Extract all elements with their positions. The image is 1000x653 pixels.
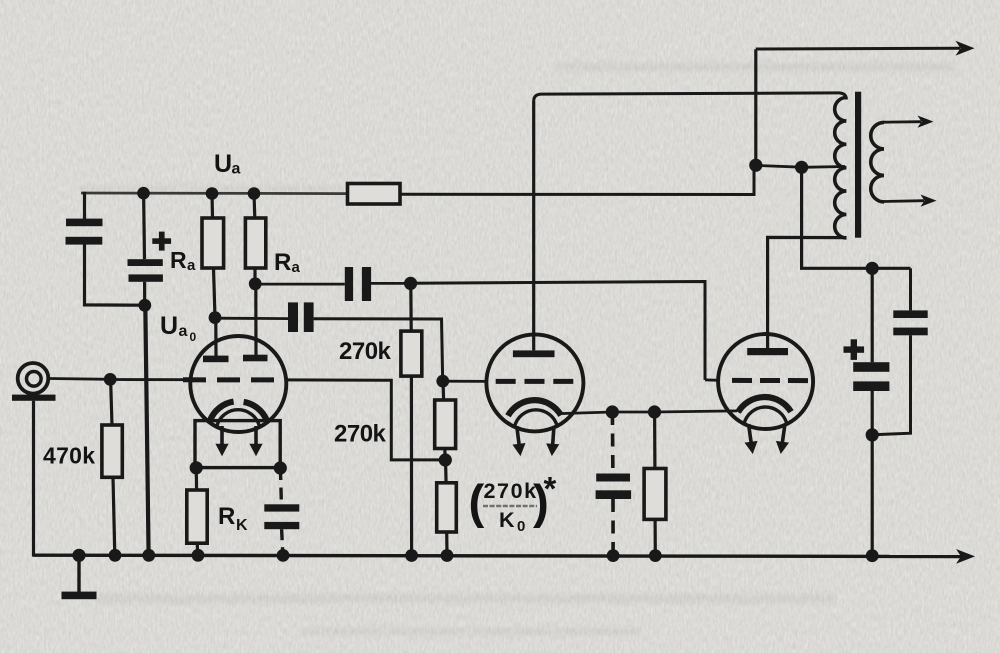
svg-text:470k: 470k xyxy=(43,443,95,469)
tube V3 cathode arrow left xyxy=(742,423,759,455)
tube V1 envelope xyxy=(190,336,286,432)
wire C3 to grid corner of tube V2 xyxy=(314,319,443,381)
svg-text:R: R xyxy=(170,247,187,273)
wire input to node H xyxy=(49,377,111,381)
wire top long run to transformer primary xyxy=(534,93,847,101)
label Ua0 node xyxy=(160,312,197,344)
svg-text:0: 0 xyxy=(190,330,197,344)
ground symbol xyxy=(77,555,80,592)
wire secondary bottom lead output arrow xyxy=(883,195,937,207)
grid g1 dashed line inside tube V1 xyxy=(183,377,288,382)
tube V2 cathode arrow right xyxy=(545,426,560,457)
capacitor C2 electrolytic plates xyxy=(128,259,163,282)
wire node R down to ground rail xyxy=(871,435,874,556)
resistor R3 (270k/K0) top lead xyxy=(444,460,448,483)
node I box corner left xyxy=(190,461,203,474)
resistor R3 (270k/K0) xyxy=(437,483,457,532)
resistor Ra2 xyxy=(245,218,265,268)
node junction on rail at Ra1 xyxy=(206,187,219,200)
wire V2 anode lead up to top wire xyxy=(532,101,535,350)
tube V1 anode plate a1 xyxy=(203,356,229,363)
svg-text:0: 0 xyxy=(517,518,525,535)
svg-text:270k: 270k xyxy=(339,338,392,365)
wire node P to transformer center tap xyxy=(802,165,845,169)
grid g dashed line inside tube V3 xyxy=(732,378,813,383)
wire from rail down to capacitor C1 xyxy=(83,192,86,219)
node ground stub junction xyxy=(72,549,85,562)
resistor Ra1 xyxy=(202,218,224,268)
node N cathode junction at R4 xyxy=(648,405,661,418)
node rail junction 470k xyxy=(109,549,122,562)
capacitor C6 cathode bypass (dashed option) xyxy=(596,474,632,500)
node R junction of C7 and C8 bottoms xyxy=(866,428,879,441)
transformer T1 secondary winding xyxy=(871,122,884,201)
wire V3 grid horizontal stub xyxy=(705,378,720,381)
wire from rail node down to electrolytic C2 xyxy=(142,193,146,259)
tube V2 heater arc xyxy=(515,410,558,427)
resistor Ra2 bottom lead to node F xyxy=(253,268,256,284)
wire C8 bottom to node R xyxy=(873,335,911,435)
tube V3 cathode arrow right xyxy=(774,423,791,455)
resistor R5 (series supply dropper) xyxy=(348,184,401,205)
wire node K to tube V2 grid xyxy=(443,380,488,383)
tube V3 envelope xyxy=(718,334,813,429)
label 470k xyxy=(43,443,95,469)
capacitor C2 electrolytic plus sign xyxy=(152,232,171,251)
resistor Ra2 top lead xyxy=(252,194,256,219)
wire anode lead a2 of tube V1 xyxy=(254,284,257,355)
tube V3 cathode dome xyxy=(738,397,791,412)
capacitor C4 coupling (upper) xyxy=(345,267,371,301)
node rail junction RK xyxy=(192,549,205,562)
resistor R2 270k top lead from node K xyxy=(441,381,445,400)
capacitor C1 (smoothing, left) xyxy=(66,219,103,245)
wire node H to grid of tube V1 xyxy=(110,378,189,381)
wire top output arrow to B+ xyxy=(756,41,975,56)
resistor RK xyxy=(187,490,207,543)
tube V1 heater arc xyxy=(217,410,259,426)
node O supply/top-arrow junction xyxy=(749,159,762,172)
wire node O up to top output arrow xyxy=(754,49,757,165)
transformer T1 core bar xyxy=(855,92,861,238)
wire R1 bottom lead down to ground rail xyxy=(410,376,413,555)
svg-text:270k: 270k xyxy=(334,421,387,448)
wire dashed node J to capacitor C5 xyxy=(280,468,281,504)
wire RK bottom lead to ground rail xyxy=(196,543,200,555)
label 270k lower xyxy=(334,421,387,448)
node rail junction cap branch xyxy=(142,549,155,562)
svg-text:R: R xyxy=(274,249,291,276)
node rail junction R1 xyxy=(405,549,418,562)
resistor R1 270k top lead xyxy=(409,283,413,331)
capacitor C8 xyxy=(893,310,927,335)
svg-text:a: a xyxy=(232,161,241,178)
node rail junction R4 xyxy=(649,549,662,562)
wire ground rail with arrow xyxy=(34,549,976,564)
wire R2 bottom to node L xyxy=(443,449,447,460)
fraction bar of (270k/K0) xyxy=(483,505,537,507)
svg-text:(: ( xyxy=(469,476,485,529)
node rail junction R3 xyxy=(441,549,454,562)
label Ra2 xyxy=(274,249,301,276)
wire node O to center tap node P xyxy=(756,165,802,167)
wire supply rail Ua left segment xyxy=(81,192,347,195)
capacitor C3 coupling (lower) xyxy=(288,302,314,332)
tube V2 cathode arrow left xyxy=(510,425,527,457)
tube V1 cathode arrow left xyxy=(215,426,228,456)
wire node D down to ground rail xyxy=(145,305,148,555)
tube V2 cathode dome xyxy=(508,400,561,416)
node rail junction C5 xyxy=(277,549,290,562)
input terminal chassis bar xyxy=(12,395,56,401)
svg-text:K: K xyxy=(499,508,515,532)
node rail junction right branch xyxy=(866,549,879,562)
wire node P down and right to node Q xyxy=(802,167,911,268)
tube V3 heater arc xyxy=(744,407,787,424)
capacitor C5 cathode bypass xyxy=(264,504,299,529)
tube V1 anode plate a2 xyxy=(243,355,268,362)
wire C2 bottom to node D xyxy=(143,282,146,305)
node F junction Ra2/anode/C4 xyxy=(249,277,262,290)
label RK xyxy=(218,503,248,534)
input terminal outer ring xyxy=(18,363,49,394)
svg-text:*: * xyxy=(544,470,557,507)
resistor R2 270k xyxy=(435,400,456,449)
resistor R4 cathode xyxy=(644,469,666,520)
node rail junction C6 xyxy=(607,549,620,562)
node junction on rail at left cap branch xyxy=(137,187,150,200)
svg-text:K: K xyxy=(236,517,248,534)
label (270k/K0)* fraction xyxy=(469,470,557,535)
tube V2 anode plate xyxy=(513,350,555,357)
wire V3 anode lead up and to primary bottom xyxy=(768,237,847,348)
node M cathode junction at C6 xyxy=(606,405,619,418)
label Ra1 xyxy=(170,247,196,274)
wire dashed C5 to ground rail xyxy=(282,529,283,553)
wire terminal down to ground rail xyxy=(32,401,35,557)
wire anode lead a1 of tube V1 xyxy=(214,318,217,356)
wire R3 bottom to ground rail xyxy=(445,532,448,553)
node P center tap junction xyxy=(795,161,808,174)
input terminal inner ring xyxy=(27,372,42,387)
wire C8 branch from node Q xyxy=(909,268,912,310)
wire C7 bottom to node R xyxy=(871,391,874,435)
tube V1 cathode arrow right xyxy=(249,426,262,456)
svg-text:270k: 270k xyxy=(484,479,538,503)
node J box corner right xyxy=(274,461,287,474)
transformer T1 primary winding xyxy=(835,98,847,238)
node G junction C4/270k/grid wire xyxy=(404,277,417,290)
tube V1 cathode dome right segment xyxy=(244,402,267,420)
tube V1 cathode dome left segment xyxy=(210,402,234,421)
capacitor C7 electrolytic plates xyxy=(853,362,889,391)
svg-text:a: a xyxy=(179,323,188,340)
svg-text:a: a xyxy=(292,259,301,276)
node junction on rail at Ra2 xyxy=(248,187,261,200)
resistor Ra1 top lead xyxy=(210,194,214,219)
wire dashed C6 down to ground rail xyxy=(611,499,615,554)
label Ua supply node xyxy=(214,150,241,178)
node E junction Ra1/anode/C3 xyxy=(209,311,222,324)
tube V1 cathode box xyxy=(195,421,280,468)
resistor RK top lead xyxy=(195,468,199,490)
wire node M to node N xyxy=(612,411,654,414)
svg-text:U: U xyxy=(160,312,178,340)
wire node E to coupling capacitor C3 xyxy=(215,317,288,320)
resistor R4 cathode top lead xyxy=(653,412,657,469)
wire V1 grid to feedback node L xyxy=(286,380,445,460)
wire C4 to node G xyxy=(371,282,411,285)
svg-text:a: a xyxy=(187,257,196,274)
wire secondary top lead output arrow xyxy=(883,116,934,128)
node H junction input/470k xyxy=(104,373,117,386)
svg-text:U: U xyxy=(214,150,232,178)
node L feedback junction xyxy=(439,453,452,466)
node Q junction at C7 top xyxy=(866,262,879,275)
wire 470k bottom lead to ground rail xyxy=(113,477,115,555)
node D junction of C1 and C2 bottoms xyxy=(138,299,151,312)
resistor Ra1 bottom lead to node E xyxy=(214,268,216,318)
wire node F to coupling capacitor C4 xyxy=(255,283,345,286)
resistor R1 270k xyxy=(401,331,422,376)
resistor R6 470k xyxy=(102,425,122,477)
tube V2 envelope xyxy=(486,334,583,431)
wire node Q down to capacitor C7 xyxy=(871,268,874,362)
wire R4 bottom to ground rail xyxy=(653,519,656,554)
wire dashed node M down to capacitor C6 xyxy=(611,412,615,474)
resistor R6 470k top lead xyxy=(111,379,112,425)
capacitor C7 electrolytic plus sign xyxy=(844,339,865,360)
node K grid of tube V2 xyxy=(436,375,449,388)
wire node G to grid of tube V3 xyxy=(411,282,705,380)
wire from C1 bottom to node D xyxy=(85,245,146,306)
label 270k upper xyxy=(339,338,392,365)
wire supply rail Ua right segment xyxy=(400,162,754,195)
grid g dashed line inside tube V2 xyxy=(496,379,584,384)
tube V3 anode plate xyxy=(747,348,788,355)
wire V2 cathode to node M xyxy=(559,412,612,414)
wire node N to tube V3 cathode xyxy=(655,411,738,412)
svg-text:R: R xyxy=(218,503,235,530)
